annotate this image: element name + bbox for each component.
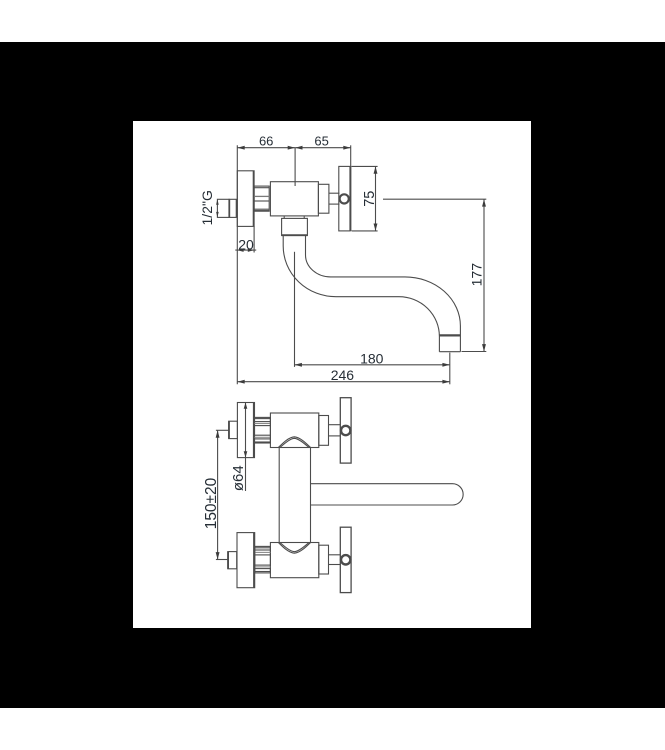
svg-text:65: 65 xyxy=(314,134,328,149)
handle bar (bottom valve) xyxy=(340,527,351,592)
dim 180 line xyxy=(295,364,450,366)
wire: handle-face extension xyxy=(350,145,352,166)
dim 246 line xyxy=(237,381,449,383)
svg-text:177: 177 xyxy=(469,263,485,287)
handle hub circle (top valve) xyxy=(341,426,350,435)
bottom white band xyxy=(0,708,665,750)
threads (upper) xyxy=(254,186,269,211)
dome arch (top valve) xyxy=(278,437,310,448)
dim 66 line xyxy=(237,147,295,149)
wall plate xyxy=(237,171,254,227)
dim 20 line xyxy=(235,249,256,251)
dim 150+-20 line xyxy=(217,430,219,559)
neck xyxy=(282,218,308,235)
connector 1/2G xyxy=(217,199,229,217)
wire: wall extension line xyxy=(236,145,238,384)
collar (top valve) xyxy=(319,416,329,446)
flange (top valve) xyxy=(237,403,254,458)
nozzle joint line xyxy=(439,334,460,336)
body (bottom valve) xyxy=(270,543,318,578)
connector (bottom valve) xyxy=(228,552,237,569)
spout inner curve xyxy=(306,236,461,352)
drawing area xyxy=(133,121,531,628)
connector (top valve) xyxy=(229,421,238,438)
svg-text:ø64: ø64 xyxy=(230,465,247,491)
wire: spout centerline extension (180 left) xyxy=(294,252,296,367)
threads (bottom valve) xyxy=(255,546,271,573)
body (top valve) xyxy=(270,413,318,448)
wire: 150 extension top xyxy=(216,429,229,431)
svg-text:1/2"G: 1/2"G xyxy=(199,190,215,225)
shaft right edge xyxy=(310,448,312,543)
collar right (upper) xyxy=(318,184,329,213)
svg-text:20: 20 xyxy=(238,236,254,252)
wire: center extension xyxy=(294,148,296,186)
collar (bottom valve) xyxy=(319,545,329,574)
dim 75 line xyxy=(375,166,377,231)
svg-text:246: 246 xyxy=(331,367,355,383)
neck steps xyxy=(283,216,285,218)
wire: nozzle extension below xyxy=(449,353,451,385)
svg-text:180: 180 xyxy=(360,350,384,366)
spout (front view) xyxy=(311,484,463,505)
flange (bottom valve) xyxy=(237,533,255,588)
dim 177 line xyxy=(483,199,485,351)
nozzle bottom xyxy=(439,351,460,353)
spout outer curve xyxy=(283,236,439,352)
handle bar (upper, edge view) xyxy=(339,166,350,231)
shaft left edge xyxy=(278,448,280,543)
wire: wall plate right extension (20) xyxy=(253,226,255,252)
handle bar (top valve) xyxy=(340,398,351,463)
dim phi64 line xyxy=(245,403,247,492)
wire: 177 extension top xyxy=(383,198,486,200)
threads (top valve) xyxy=(255,417,271,443)
wire: 150 extension bottom xyxy=(216,559,228,561)
dim 65 line xyxy=(295,147,351,149)
body (upper) xyxy=(270,182,318,216)
wire: 177 extension bottom xyxy=(462,351,487,353)
svg-text:66: 66 xyxy=(259,134,273,149)
handle hub circle (upper) xyxy=(340,194,349,203)
svg-text:150±20: 150±20 xyxy=(203,477,220,529)
wire: 75 extension top xyxy=(352,165,378,167)
top white band xyxy=(0,0,665,42)
stem (bottom valve) xyxy=(329,554,341,556)
dome arch (bottom valve) xyxy=(278,543,310,554)
handle hub circle (bottom valve) xyxy=(341,555,350,564)
wire: 75 extension bottom xyxy=(352,230,378,232)
svg-text:75: 75 xyxy=(362,191,378,207)
stem (upper) xyxy=(329,192,340,194)
stem (top valve) xyxy=(329,424,341,426)
